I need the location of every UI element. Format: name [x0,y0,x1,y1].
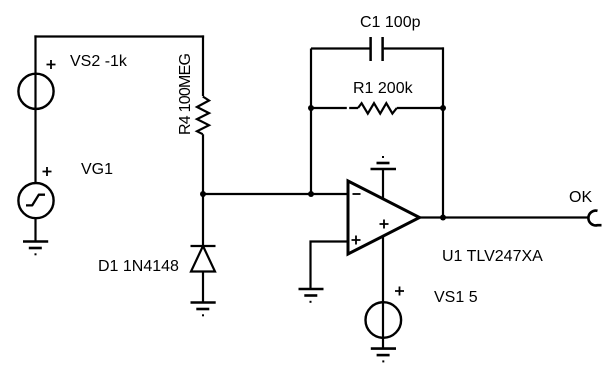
wire output to port OK [420,216,590,218]
label VS1 5 [434,289,478,306]
waveform glyph inside VG1 [26,195,45,206]
plus marker VS2 [47,60,56,69]
svg-text:C1 100p: C1 100p [360,14,421,31]
junction node output/feedback [440,215,446,221]
ground at non-inverting input [299,289,324,302]
plus marker non-inverting input [352,236,361,245]
junction node R1/C1 right [440,105,446,111]
wire R4 branch top vertical [202,35,204,96]
plus marker VS1 [395,287,404,296]
wire C1 left [311,47,370,49]
diode D1 1N4148 [191,246,216,272]
voltage generator VG1 [18,183,53,218]
svg-text:OK: OK [569,189,592,206]
capacitor C1 100p [371,37,383,61]
junction node feedback bottom at inverting wire [308,191,314,197]
label R1 200k [353,80,414,97]
wire negative supply pin up [382,169,384,200]
label VG1 [81,161,113,178]
plus marker positive supply [380,220,389,229]
svg-text:VS1 5: VS1 5 [434,289,478,306]
label OK [569,189,592,206]
wire VS1 to ground [382,338,384,349]
wire top horizontal from VS2 branch to R4 branch [34,35,204,37]
wire C1 right [384,47,444,49]
op-amp U1 TLV247XA [348,181,420,254]
junction node feedback/R1/C1 left [308,105,314,111]
wire non-inverting input to ground [311,242,349,290]
svg-text:VG1: VG1 [81,161,113,178]
wire D1 anode to ground [202,272,204,303]
label VS2 -1k [70,53,128,70]
resistor R4 100MEG [197,97,209,135]
wire feedback right vertical [442,47,444,218]
wire R1 right [397,107,444,109]
voltage source VS2 [18,74,53,109]
voltage source VS1 [366,302,402,338]
ground under VG1 [23,242,48,255]
label U1 TLV247XA [442,248,543,265]
wire feedback left vertical [310,49,312,195]
junction node R4/D1/inverting input [200,191,206,197]
wire left vertical through VS2 down to VG1 [34,35,36,183]
label C1 100p [360,14,421,31]
wire R1 left [311,107,358,109]
ground flipped above op-amp negative supply [371,157,397,169]
wire inverting node to op-amp minus input [203,193,348,195]
wire positive supply pin down through VS1 [382,236,384,339]
svg-text:R4 100MEG: R4 100MEG [177,53,194,135]
output port OK arc [588,211,601,226]
label R4 100MEG (rotated) [177,53,194,135]
svg-text:VS2 -1k: VS2 -1k [70,53,128,70]
label D1 1N4148 [98,258,179,275]
ground under VS1 [371,349,396,362]
ground under D1 [191,303,216,316]
plus marker VG1 [43,167,52,176]
minus marker inverting input [353,193,361,195]
svg-text:D1 1N4148: D1 1N4148 [98,258,179,275]
wire R4 to inverting node [202,134,204,246]
svg-text:R1 200k: R1 200k [353,80,414,97]
resistor R1 200k [358,103,397,113]
wire VG1 to ground [34,219,36,242]
svg-text:U1 TLV247XA: U1 TLV247XA [442,248,543,265]
